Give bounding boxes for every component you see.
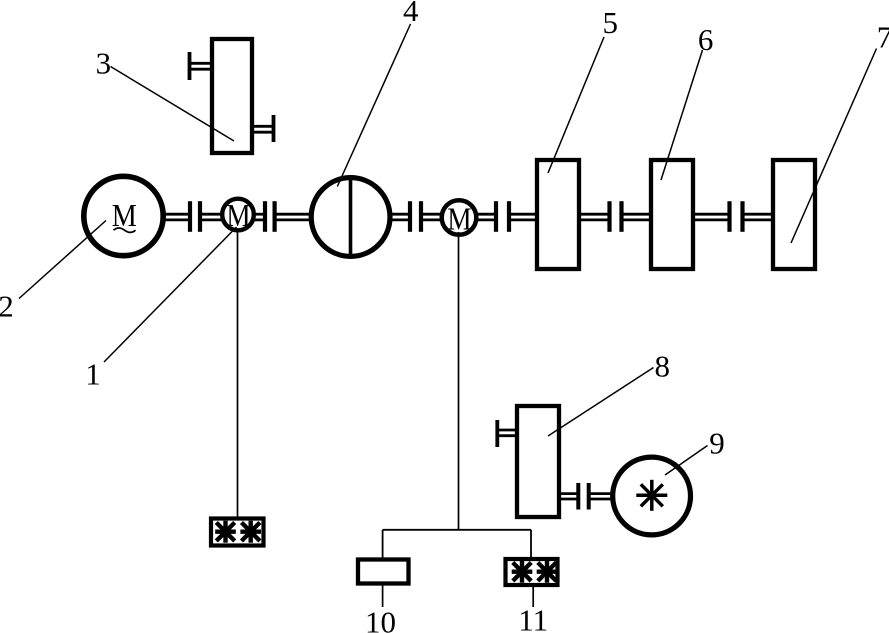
shaft stub right of gearbox 3 bbox=[252, 115, 274, 142]
wire: horizontal bus bbox=[383, 529, 531, 531]
shaft: variator 4 to coupling bbox=[389, 214, 410, 220]
motor M (item 1) bbox=[222, 199, 254, 234]
leader line to label 8 bbox=[548, 368, 654, 437]
svg-text:M: M bbox=[226, 199, 250, 233]
label 6 bbox=[698, 22, 714, 57]
shaft: coupling to machine 7 bbox=[743, 214, 774, 220]
leader line to label 7 bbox=[791, 49, 877, 244]
label 4 bbox=[403, 0, 419, 28]
gearbox (item 3) bbox=[212, 39, 252, 153]
label 9 bbox=[709, 426, 725, 461]
shaft: tachogenerator to coupling bbox=[474, 214, 496, 220]
svg-text:M: M bbox=[447, 203, 471, 237]
variator disc (item 4) bbox=[311, 178, 390, 257]
shaft: motor 2 to coupling bbox=[162, 214, 190, 220]
leader line to label 3 bbox=[111, 67, 235, 142]
svg-text:1: 1 bbox=[85, 356, 101, 391]
shaft stub left of gearbox 8 bbox=[497, 420, 517, 447]
brake box with asterisks (below motor 1) bbox=[211, 519, 264, 546]
coupling between gearbox 6 and machine 7 bbox=[730, 201, 743, 232]
shaft: coupling to tachogenerator bbox=[421, 214, 444, 220]
machine (item 7) bbox=[773, 160, 815, 269]
fan (item 9) bbox=[613, 457, 691, 535]
wire: box 11 down to label 11 bbox=[532, 587, 534, 607]
shaft: motor 1 to coupling bbox=[253, 214, 265, 220]
wire: bus down to box 10 bbox=[382, 530, 384, 559]
wire: tachogenerator down to bus bbox=[458, 232, 460, 530]
label 8 bbox=[655, 349, 671, 384]
svg-text:6: 6 bbox=[698, 22, 714, 57]
shaft: coupling to fan 9 bbox=[589, 494, 614, 499]
svg-text:3: 3 bbox=[96, 46, 112, 81]
svg-text:7: 7 bbox=[877, 20, 889, 55]
shaft: coupling to gearbox 5 bbox=[509, 214, 537, 220]
coupling between tachogenerator and gearbox 5 bbox=[496, 201, 509, 232]
gearbox (item 6) bbox=[651, 160, 693, 269]
label 11 bbox=[518, 603, 548, 633]
svg-text:9: 9 bbox=[709, 426, 725, 461]
svg-text:2: 2 bbox=[0, 289, 14, 324]
leader line to label 1 bbox=[104, 227, 237, 362]
leader line to label 9 bbox=[665, 446, 708, 476]
label 3 bbox=[96, 46, 112, 81]
shaft: gearbox 6 to coupling bbox=[695, 214, 730, 220]
coupling between gearbox 8 and fan 9 bbox=[578, 483, 588, 510]
brake box with asterisks (item 11) bbox=[506, 559, 558, 585]
svg-text:11: 11 bbox=[518, 603, 548, 633]
svg-text:10: 10 bbox=[365, 605, 396, 633]
svg-text:4: 4 bbox=[403, 0, 419, 28]
wire: bus down to box 11 bbox=[530, 530, 532, 558]
coupling between gearbox 5 and gearbox 6 bbox=[610, 201, 622, 232]
shaft: gearbox 5 to coupling bbox=[581, 214, 610, 220]
shaft: coupling to motor 1 bbox=[200, 214, 223, 220]
shaft stub left of gearbox 3 bbox=[190, 52, 213, 80]
wire: box 10 down to label 10 bbox=[382, 586, 384, 608]
shaft: coupling to variator 4 bbox=[275, 214, 312, 220]
svg-text:8: 8 bbox=[655, 349, 671, 384]
label 2 bbox=[0, 289, 14, 324]
shaft: coupling to gearbox 6 bbox=[622, 214, 652, 220]
leader line to label 4 bbox=[337, 24, 410, 187]
motor M~ (item 2) bbox=[84, 176, 163, 255]
shaft: gearbox 8 to coupling bbox=[559, 494, 578, 499]
coupling between motor 2 and motor 1 bbox=[190, 201, 200, 232]
gearbox (item 8) bbox=[517, 406, 559, 517]
coupling between motor 1 and variator 4 bbox=[265, 201, 275, 232]
label 1 bbox=[85, 356, 101, 391]
leader line to label 5 bbox=[548, 37, 604, 173]
device box (item 10) bbox=[358, 560, 409, 584]
leader line to label 6 bbox=[661, 50, 703, 180]
svg-text:5: 5 bbox=[602, 5, 618, 40]
wire: motor 1 down to brake box bbox=[237, 231, 239, 518]
label 10 bbox=[365, 605, 396, 633]
coupling between variator 4 and tachogenerator bbox=[410, 201, 421, 232]
tachogenerator M (second small motor) bbox=[442, 200, 477, 237]
gearbox (item 5) bbox=[537, 160, 579, 269]
leader line to label 2 bbox=[19, 221, 106, 299]
label 5 bbox=[602, 5, 618, 40]
label 7 bbox=[877, 20, 889, 55]
